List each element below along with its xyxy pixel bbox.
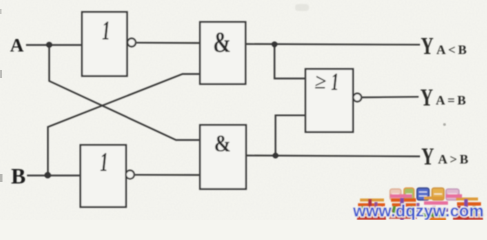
svg-text:1: 1 bbox=[100, 147, 108, 177]
wire: input A bbox=[26, 44, 82, 46]
scan artifact: left edge ticks bbox=[0, 9, 3, 182]
AND gate G4 (bottom) bbox=[200, 125, 246, 189]
svg-text:B: B bbox=[11, 164, 26, 189]
svg-text:A<B: A<B bbox=[436, 42, 469, 57]
svg-text:1: 1 bbox=[331, 68, 339, 96]
svg-text:&: & bbox=[214, 130, 231, 157]
wire: NOT1 output to AND1 top input bbox=[136, 42, 200, 44]
svg-text:Y: Y bbox=[421, 32, 434, 59]
wire: NOT2 output to AND2 bottom input bbox=[134, 174, 200, 176]
label: output Y A>B bbox=[421, 143, 470, 170]
wire: OR output to Y A=B bbox=[361, 96, 418, 99]
svg-text:A>B: A>B bbox=[438, 152, 471, 167]
svg-text:A: A bbox=[10, 36, 24, 57]
OR gate G5 (>=1) bbox=[306, 68, 362, 132]
NOT gate G1 (inverter, input A) bbox=[82, 12, 136, 76]
scan speck near A=B label bbox=[443, 123, 446, 126]
blue url text bbox=[376, 202, 418, 218]
svg-text:Y: Y bbox=[420, 84, 433, 111]
wire: A junction vertical drop bbox=[49, 45, 200, 140]
watermark (colored site logo, bottom right) bbox=[352, 188, 484, 221]
bubble on NOT1 output bbox=[128, 38, 136, 46]
node: junction on B input bbox=[45, 172, 51, 178]
NOT gate G2 (inverter, input B) bbox=[80, 145, 134, 207]
wire: AND1 output to Y A<B bbox=[246, 43, 421, 46]
wire: input B bbox=[27, 175, 80, 177]
svg-text:A=B: A=B bbox=[436, 93, 469, 108]
label: output Y A=B bbox=[420, 84, 468, 111]
svg-text:www.dqzyw.com: www.dqzyw.com bbox=[352, 203, 484, 221]
wire: B junction vertical rise and diagonal to AND1 bottom input bbox=[48, 74, 200, 175]
wire: AND2 output to Y A>B bbox=[246, 155, 420, 158]
AND gate G3 (top) bbox=[200, 22, 246, 84]
node: junction on A input bbox=[46, 42, 52, 48]
wire: junction to OR top input bbox=[275, 44, 306, 78]
faint smudge top middle bbox=[295, 4, 309, 11]
label: output Y A<B bbox=[421, 32, 469, 59]
svg-text:1: 1 bbox=[102, 15, 110, 45]
node: junction on AND2 output bbox=[273, 153, 279, 159]
small colored badge row bbox=[390, 188, 459, 200]
bubble on NOT2 output bbox=[126, 170, 134, 178]
big colourful CJK-style characters: top band bbox=[357, 196, 484, 220]
bubble on OR output bbox=[353, 93, 361, 101]
svg-text:Y: Y bbox=[421, 143, 434, 170]
middle band bbox=[360, 198, 481, 220]
node: junction on AND1 output bbox=[272, 41, 278, 47]
svg-text:&: & bbox=[213, 26, 231, 59]
wire: junction to OR bottom input bbox=[276, 115, 306, 155]
bottom band bbox=[357, 217, 483, 218]
